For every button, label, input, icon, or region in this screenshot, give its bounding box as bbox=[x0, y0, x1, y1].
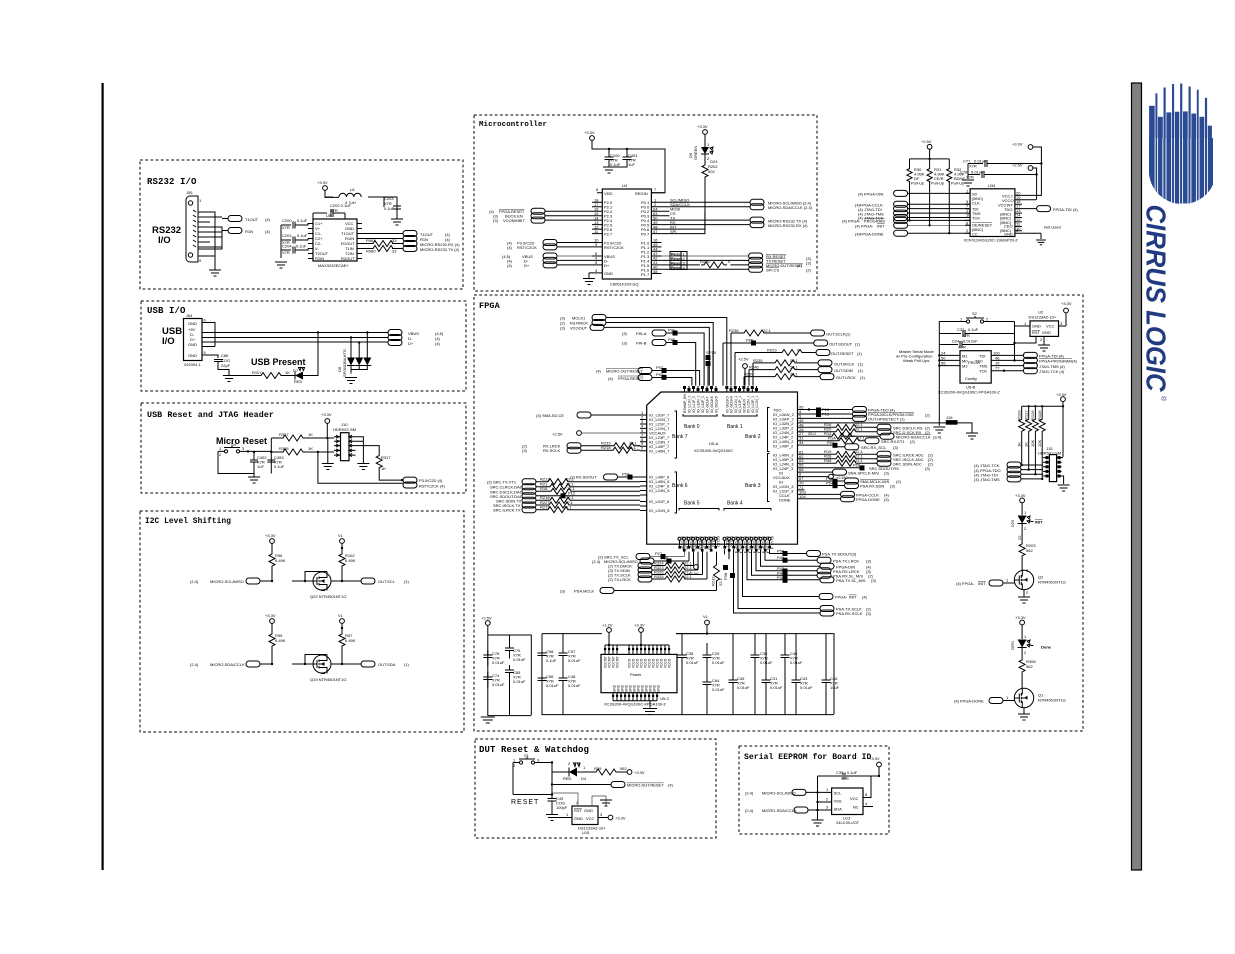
svg-text:FPGA: FPGA bbox=[479, 301, 501, 311]
stadium OUT.SDA bbox=[361, 661, 375, 667]
svg-text:®: ® bbox=[1159, 396, 1167, 402]
row SMA.MCLK bbox=[805, 480, 833, 482]
svg-text:+3.3V: +3.3V bbox=[634, 623, 645, 628]
ground prom caps bbox=[962, 180, 974, 186]
right stadiums reset bbox=[749, 253, 763, 259]
svg-text:VL: VL bbox=[338, 613, 344, 618]
svg-text:VCCO: VCCO bbox=[668, 658, 672, 668]
svg-text:IO_GCLK7: IO_GCLK7 bbox=[706, 396, 710, 413]
svg-text:I/O: I/O bbox=[158, 235, 171, 246]
svg-text:X7R: X7R bbox=[966, 175, 974, 180]
svg-text:(2,4): (2,4) bbox=[190, 662, 199, 667]
row PSA.TX.SDOUT bbox=[770, 549, 807, 553]
stadium OUT.SCL bbox=[361, 578, 375, 584]
svg-text:OUT.SDOUT: OUT.SDOUT bbox=[829, 342, 853, 347]
svg-text:(3): (3) bbox=[622, 341, 628, 346]
svg-text:Q22 NTR4501NT1G: Q22 NTR4501NT1G bbox=[310, 594, 346, 599]
svg-text:OUT.SCLK(1): OUT.SCLK(1) bbox=[826, 332, 851, 337]
svg-text:GND: GND bbox=[657, 684, 661, 692]
USB I/O block box bbox=[141, 301, 466, 391]
svg-text:+2.5V: +2.5V bbox=[481, 616, 492, 621]
svg-text:(3): (3) bbox=[522, 448, 528, 453]
svg-text:0.01uF: 0.01uF bbox=[686, 660, 699, 665]
svg-text:SRC.RX.ET1: SRC.RX.ET1 bbox=[881, 439, 905, 444]
USB bus wires bbox=[207, 333, 388, 343]
svg-text:22.1: 22.1 bbox=[857, 436, 866, 441]
svg-text:(3): (3) bbox=[884, 470, 890, 475]
net labels right of chip bbox=[670, 198, 690, 235]
svg-text:Q19 NTR4501NT1G: Q19 NTR4501NT1G bbox=[310, 677, 346, 682]
svg-text:(4) FPGA-: (4) FPGA- bbox=[956, 581, 975, 586]
svg-text:SCL: SCL bbox=[834, 791, 843, 796]
svg-text:(4): (4) bbox=[265, 229, 271, 234]
bottom pin circles bank5 bbox=[678, 537, 717, 544]
svg-text:1K: 1K bbox=[308, 446, 313, 451]
chip GND to ground bbox=[588, 273, 590, 278]
resistor R981 bbox=[370, 241, 396, 247]
ground caps bbox=[603, 167, 615, 173]
svg-text:(3): (3) bbox=[622, 331, 628, 336]
svg-text:0.01uF: 0.01uF bbox=[737, 685, 750, 690]
ferrite J16 bbox=[805, 422, 946, 424]
svg-text:6.49K: 6.49K bbox=[345, 638, 356, 643]
P31 P32 squares bbox=[706, 355, 711, 360]
svg-text:+3.3V: +3.3V bbox=[265, 613, 276, 618]
svg-text:GND: GND bbox=[1004, 231, 1013, 236]
svg-text:(1): (1) bbox=[858, 368, 864, 373]
svg-text:VCC: VCC bbox=[850, 796, 859, 801]
svg-text:U4: U4 bbox=[622, 183, 628, 188]
svg-text:+3.3V: +3.3V bbox=[1015, 493, 1026, 498]
svg-text:MICRO-SCL/MISO: MICRO-SCL/MISO bbox=[762, 791, 796, 796]
ground Q2 bbox=[1018, 597, 1030, 603]
stadium OUT.SCLK bbox=[811, 330, 825, 336]
svg-text:RED: RED bbox=[294, 379, 303, 384]
svg-text:J55: J55 bbox=[186, 190, 193, 195]
svg-text:RST: RST bbox=[574, 808, 583, 813]
svg-text:(4): (4) bbox=[435, 341, 441, 346]
svg-text:6.49K: 6.49K bbox=[275, 638, 286, 643]
svg-text:(4): (4) bbox=[265, 217, 271, 222]
svg-text:SDA: SDA bbox=[834, 807, 843, 812]
svg-text:+3.3V: +3.3V bbox=[317, 180, 328, 185]
P15 P16 squares bbox=[816, 408, 821, 413]
svg-text:22.1: 22.1 bbox=[790, 358, 799, 363]
svg-text:R1N: R1N bbox=[245, 229, 253, 234]
svg-text:GND: GND bbox=[188, 321, 197, 326]
row FPGA-DONE bbox=[805, 498, 841, 500]
svg-text:(1): (1) bbox=[404, 662, 410, 667]
svg-text:33: 33 bbox=[392, 249, 397, 254]
svg-text:Bank 2: Bank 2 bbox=[745, 434, 761, 440]
svg-text:0.1uF: 0.1uF bbox=[546, 658, 557, 663]
header left ground bbox=[322, 464, 334, 470]
svg-text:+3.3V: +3.3V bbox=[697, 124, 708, 129]
right pin labels P0 P1 bbox=[641, 200, 650, 277]
svg-text:GND: GND bbox=[1032, 324, 1041, 329]
stadium RIN bbox=[228, 228, 242, 234]
bank 2 bracket bbox=[768, 408, 770, 452]
svg-text:IO_L40N_7: IO_L40N_7 bbox=[649, 449, 670, 454]
row PSA.RX.SDIN bbox=[805, 485, 833, 487]
svg-text:(4) JTAG-TMS: (4) JTAG-TMS bbox=[974, 477, 1000, 482]
svg-text:MICRO-SDA/CCLK (2,4): MICRO-SDA/CCLK (2,4) bbox=[768, 205, 813, 210]
svg-text:33: 33 bbox=[392, 238, 397, 243]
svg-text:+3.3V: +3.3V bbox=[1015, 615, 1026, 620]
svg-text:1K: 1K bbox=[308, 432, 313, 437]
svg-text:47: 47 bbox=[653, 229, 658, 234]
svg-text:562: 562 bbox=[620, 766, 627, 771]
svg-text:C8051F320-GQ: C8051F320-GQ bbox=[610, 282, 638, 287]
row SNA.SPCLK bbox=[805, 471, 833, 473]
svg-text:IO_L24N_6: IO_L24N_6 bbox=[649, 488, 670, 493]
top pin squares and stubs bank0 bbox=[683, 386, 718, 392]
svg-text:R38: R38 bbox=[824, 458, 832, 463]
svg-text:(3): (3) bbox=[925, 466, 931, 471]
svg-text:(3): (3) bbox=[890, 484, 896, 489]
svg-text:Weak Pull-Ups: Weak Pull-Ups bbox=[903, 358, 929, 363]
svg-text:P54: P54 bbox=[826, 481, 834, 486]
svg-text:P1.7: P1.7 bbox=[641, 272, 650, 277]
svg-text:(1): (1) bbox=[857, 351, 863, 356]
svg-text:IO_L01N_6: IO_L01N_6 bbox=[649, 508, 670, 513]
svg-text:MICRO-SDA/CCLK: MICRO-SDA/CCLK bbox=[210, 662, 245, 667]
left pin stubs bbox=[589, 193, 602, 273]
output stadiums USB bbox=[388, 330, 402, 336]
svg-text:IO_L40P_2: IO_L40P_2 bbox=[773, 444, 794, 449]
ground power chip bbox=[643, 709, 657, 715]
svg-text:(2,4): (2,4) bbox=[592, 559, 601, 564]
svg-text:T1OUT: T1OUT bbox=[245, 217, 259, 222]
svg-text:OUT.SDIN: OUT.SDIN bbox=[834, 368, 853, 373]
svg-text:+3.3V: +3.3V bbox=[1061, 301, 1072, 306]
svg-text:0.1uF: 0.1uF bbox=[297, 218, 308, 223]
svg-text:562: 562 bbox=[1026, 664, 1033, 669]
svg-text:34: 34 bbox=[799, 440, 804, 445]
rotated top pin names bank0 bbox=[683, 394, 719, 413]
wires P0 to stadiums bbox=[661, 202, 750, 233]
svg-text:CIRRUS LOGIC: CIRRUS LOGIC bbox=[1141, 205, 1172, 393]
svg-text:X7R: X7R bbox=[282, 250, 290, 255]
svg-text:R236: R236 bbox=[729, 328, 739, 333]
svg-text:SP38: SP38 bbox=[706, 350, 717, 355]
+2.5V bottom terminal bbox=[694, 565, 699, 570]
svg-text:D+: D+ bbox=[408, 341, 414, 346]
svg-text:INIT: INIT bbox=[849, 595, 857, 600]
svg-text:(1): (1) bbox=[404, 579, 410, 584]
svg-text:(4) FPGA-DONE: (4) FPGA-DONE bbox=[954, 699, 984, 704]
svg-text:OUT.LRCK: OUT.LRCK bbox=[836, 375, 856, 380]
chip U13 24LC00 bbox=[832, 788, 863, 815]
config chip U5-B bbox=[960, 351, 991, 383]
svg-text:Bank 6: Bank 6 bbox=[672, 483, 688, 489]
config chip right stubs to stadiums bbox=[991, 355, 1023, 370]
resistor R317 bbox=[356, 446, 380, 454]
svg-text:U5-A: U5-A bbox=[709, 441, 718, 446]
chip U15 DS1233 bbox=[572, 806, 598, 825]
svg-text:(4)FPGA-DONE: (4)FPGA-DONE bbox=[855, 231, 884, 236]
svg-text:0.01uF: 0.01uF bbox=[712, 687, 725, 692]
svg-text:Micro Reset: Micro Reset bbox=[216, 436, 267, 446]
ground left caps bbox=[275, 262, 287, 268]
svg-text:FPGA-: FPGA- bbox=[835, 595, 848, 600]
svg-text:MICRO-SDA/CCLK: MICRO-SDA/CCLK bbox=[762, 808, 797, 813]
mosfet Q19 bbox=[313, 655, 331, 674]
svg-text:Bank 7: Bank 7 bbox=[672, 434, 688, 440]
svg-text:D+: D+ bbox=[604, 263, 610, 268]
ground Q1 bbox=[1018, 714, 1030, 720]
svg-text:FPGA-TDI (4): FPGA-TDI (4) bbox=[1053, 207, 1078, 212]
mosfet Q2 bbox=[1014, 570, 1033, 590]
svg-text:SPI.CS: SPI.CS bbox=[766, 268, 779, 273]
svg-text:(2) TX.LRCK: (2) TX.LRCK bbox=[608, 577, 631, 582]
svg-text:+2.5V: +2.5V bbox=[688, 571, 699, 576]
svg-text:0.01uF: 0.01uF bbox=[513, 657, 526, 662]
svg-text:(1): (1) bbox=[855, 342, 861, 347]
power chip top pin wires bbox=[605, 648, 669, 654]
left pin rows bank6 bbox=[649, 475, 670, 514]
svg-text:NTR4501NT1G: NTR4501NT1G bbox=[1038, 698, 1066, 703]
svg-text:R980: R980 bbox=[366, 249, 376, 254]
svg-text:0.1uF: 0.1uF bbox=[274, 464, 285, 469]
I2C Level Shifting block box bbox=[140, 511, 464, 732]
svg-text:CC: CC bbox=[972, 231, 978, 236]
FPGA U5-A outline bbox=[647, 392, 798, 544]
svg-text:(4) FPGA-: (4) FPGA- bbox=[855, 224, 874, 229]
svg-text:6.49K: 6.49K bbox=[275, 558, 286, 563]
svg-text:(1): (1) bbox=[858, 361, 864, 366]
svg-text:(3): (3) bbox=[560, 325, 566, 330]
svg-text:R325: R325 bbox=[654, 574, 664, 579]
svg-text:L6: L6 bbox=[350, 187, 355, 192]
svg-text:(3): (3) bbox=[866, 611, 872, 616]
OUT.HPDETECT stadium bbox=[805, 417, 853, 419]
ground S2 rail bbox=[933, 427, 945, 433]
svg-text:VCCINT: VCCINT bbox=[616, 656, 620, 668]
wire chip V+ rail bbox=[280, 225, 282, 258]
svg-text:XC3S200-4VQG100C: XC3S200-4VQG100C bbox=[694, 448, 733, 453]
svg-text:SNA.SPCLK-M/S: SNA.SPCLK-M/S bbox=[848, 470, 879, 475]
output stadiums JTAG bbox=[403, 477, 417, 483]
svg-text:PSA.RX.SDN: PSA.RX.SDN bbox=[860, 484, 884, 489]
FPGA-MCLK stadium bbox=[805, 413, 853, 415]
main power loop bbox=[542, 634, 834, 715]
svg-text:TCK: TCK bbox=[979, 369, 987, 374]
svg-text:+3.3V: +3.3V bbox=[321, 412, 332, 417]
ground J16 bbox=[966, 433, 978, 439]
svg-text:P56: P56 bbox=[853, 463, 861, 468]
svg-text:USB Reset and JTAG Header: USB Reset and JTAG Header bbox=[147, 410, 274, 420]
svg-text:22.1: 22.1 bbox=[855, 427, 864, 432]
svg-text:Power: Power bbox=[630, 672, 642, 677]
svg-text:22.1: 22.1 bbox=[564, 505, 573, 510]
svg-text:U34: U34 bbox=[988, 183, 996, 188]
svg-text:J16: J16 bbox=[946, 415, 953, 420]
svg-text:VSS: VSS bbox=[834, 799, 842, 804]
P38 squares bbox=[723, 565, 728, 570]
svg-text:VCC: VCC bbox=[1046, 324, 1055, 329]
stadium OUT.MCLK bbox=[818, 360, 832, 366]
svg-text:IO_L01P_6: IO_L01P_6 bbox=[649, 499, 670, 504]
ground left caps bbox=[481, 717, 495, 723]
svg-text:P0.7: P0.7 bbox=[641, 232, 650, 237]
svg-text:Not Used: Not Used bbox=[1044, 225, 1061, 230]
svg-text:292304-1: 292304-1 bbox=[184, 362, 202, 367]
svg-text:R2IN: R2IN bbox=[315, 256, 324, 261]
DUT Reset &amp; Watchdog block box bbox=[475, 739, 716, 838]
svg-text:IO_L32N_0: IO_L32N_0 bbox=[697, 396, 701, 413]
row SRC.SDOUT.RS bbox=[805, 467, 860, 469]
svg-text:TCK: TCK bbox=[972, 215, 980, 220]
svg-text:DUT Reset & Watchdog: DUT Reset & Watchdog bbox=[479, 745, 589, 755]
left page border line bbox=[102, 83, 104, 870]
svg-text:JTAG-TCK (4): JTAG-TCK (4) bbox=[1039, 369, 1065, 374]
svg-text:Bank 4: Bank 4 bbox=[727, 501, 743, 507]
svg-text:R126: R126 bbox=[1030, 410, 1035, 420]
rotated top pin names bank1 bbox=[726, 396, 760, 413]
U13 left wiring bbox=[806, 792, 832, 810]
svg-text:0.1uF: 0.1uF bbox=[297, 233, 308, 238]
svg-text:0.01uF: 0.01uF bbox=[770, 685, 783, 690]
TVS diode array D8 bbox=[351, 333, 367, 358]
wires P1 rows to stadiums bbox=[661, 255, 748, 257]
RS232 I/O block box bbox=[140, 160, 463, 289]
svg-text:P64: P64 bbox=[827, 440, 835, 445]
svg-text:10: 10 bbox=[966, 213, 971, 218]
svg-text:10uF: 10uF bbox=[830, 685, 840, 690]
svg-text:(1): (1) bbox=[860, 375, 866, 380]
svg-text:I/O: I/O bbox=[162, 336, 175, 347]
left pin labels P2 bbox=[604, 200, 624, 276]
svg-text:IO_GCLK5: IO_GCLK5 bbox=[715, 396, 719, 413]
+2.5V mid terminal bbox=[805, 476, 829, 478]
chip right pin stubs bbox=[357, 224, 362, 259]
power chip bottom pins GND bbox=[612, 695, 658, 697]
svg-text:1K: 1K bbox=[1024, 442, 1029, 447]
svg-text:IO_L24P_3: IO_L24P_3 bbox=[773, 466, 794, 471]
Q22 wires bbox=[292, 572, 361, 582]
svg-text:(3): (3) bbox=[866, 558, 872, 563]
ground J15 bbox=[1058, 485, 1070, 491]
svg-text:0.01uF: 0.01uF bbox=[712, 660, 725, 665]
svg-text:USB I/O: USB I/O bbox=[147, 306, 186, 316]
svg-text:0.01uF: 0.01uF bbox=[513, 679, 526, 684]
mosfet Q22 bbox=[313, 572, 331, 591]
resistor R30 bbox=[907, 168, 912, 183]
svg-text:(3): (3) bbox=[493, 218, 499, 223]
row FPGA-DIN bbox=[761, 549, 821, 566]
svg-text:(2,4): (2,4) bbox=[745, 808, 754, 813]
row SRC.RX_SCL bbox=[805, 444, 833, 446]
VL wire to loop bbox=[676, 633, 707, 635]
header right ground bbox=[357, 464, 369, 470]
resistor bottoms to JTAG rows bbox=[1022, 433, 1042, 479]
svg-text:+3.3V: +3.3V bbox=[634, 770, 645, 775]
svg-text:FPGA-DONE: FPGA-DONE bbox=[856, 497, 880, 502]
svg-text:R109: R109 bbox=[1037, 410, 1042, 420]
svg-text:OUT.HPDETECT (1): OUT.HPDETECT (1) bbox=[868, 417, 905, 422]
svg-text:C204: C204 bbox=[282, 244, 292, 249]
ground C203 bbox=[391, 219, 403, 225]
svg-text:22: 22 bbox=[1017, 535, 1022, 540]
FPGA block box bbox=[474, 295, 1083, 731]
resistor R980 bbox=[370, 246, 396, 252]
chip right stubs prom bbox=[1015, 195, 1041, 233]
svg-text:Bank 0: Bank 0 bbox=[684, 424, 700, 430]
bank 1 bracket bbox=[723, 414, 757, 416]
U15 wiring bbox=[552, 793, 606, 806]
resistor R32 bbox=[947, 168, 952, 183]
svg-text:(2): (2) bbox=[806, 268, 812, 273]
svg-text:+3.3V: +3.3V bbox=[615, 816, 626, 821]
svg-text:22.1: 22.1 bbox=[790, 364, 799, 369]
svg-text:FIN-A: FIN-A bbox=[636, 331, 647, 336]
svg-text:RST: RST bbox=[1032, 330, 1041, 335]
bank 6 bracket bbox=[675, 472, 677, 513]
left pin rows bank7 bbox=[649, 413, 670, 454]
svg-text:(4): (4) bbox=[608, 376, 614, 381]
svg-text:0.01uF: 0.01uF bbox=[546, 683, 559, 688]
wires chip right to outputs bbox=[362, 234, 403, 249]
svg-text:25.0: 25.0 bbox=[808, 431, 817, 436]
ground USB bbox=[223, 376, 235, 382]
U13 right wiring bbox=[863, 776, 873, 807]
svg-text:0.01uF: 0.01uF bbox=[568, 683, 581, 688]
svg-text:0.01uF: 0.01uF bbox=[760, 660, 773, 665]
right pin rows bank3 bbox=[773, 453, 794, 503]
svg-text:R223: R223 bbox=[767, 347, 777, 352]
svg-text:(4): (4) bbox=[862, 595, 868, 600]
bottom pin squares under chip bbox=[678, 546, 771, 552]
svg-text:RST/C2CK (4): RST/C2CK (4) bbox=[419, 484, 445, 489]
chip left stubs prom bbox=[965, 193, 970, 233]
svg-text:MICRO-SCL/MISO: MICRO-SCL/MISO bbox=[210, 579, 244, 584]
svg-text:38: 38 bbox=[653, 269, 658, 274]
stadium OUT.LRCK bbox=[820, 374, 834, 380]
output stadiums bbox=[403, 231, 417, 237]
stadium OUT.SDOUT bbox=[814, 340, 828, 346]
svg-text:GND: GND bbox=[604, 271, 613, 276]
USB Reset and JTAG Header block box bbox=[141, 403, 466, 493]
svg-text:1uF: 1uF bbox=[628, 162, 635, 167]
svg-text:J64: J64 bbox=[186, 313, 193, 318]
svg-text:PSA.MCLK: PSA.MCLK bbox=[574, 589, 595, 594]
svg-text:GREEN: GREEN bbox=[693, 146, 698, 160]
svg-text:INIT: INIT bbox=[978, 581, 986, 586]
svg-text:VL: VL bbox=[338, 533, 344, 538]
svg-text:IO_L01N_0: IO_L01N_0 bbox=[688, 396, 692, 413]
resistor R31 bbox=[927, 168, 932, 183]
svg-text:R981: R981 bbox=[366, 238, 376, 243]
ground prom gnd pin bbox=[1040, 233, 1042, 239]
svg-text:R103: R103 bbox=[1017, 410, 1022, 420]
svg-text:XCF01SVOG20C-1SBGP20-Z: XCF01SVOG20C-1SBGP20-Z bbox=[964, 238, 1019, 243]
svg-text:0.1uF: 0.1uF bbox=[610, 162, 621, 167]
svg-text:D7: D7 bbox=[293, 368, 299, 373]
svg-text:U15: U15 bbox=[582, 830, 590, 835]
svg-text:XC3S200-4VQG100C-FPGA100-Z: XC3S200-4VQG100C-FPGA100-Z bbox=[938, 390, 1000, 395]
svg-text:1K: 1K bbox=[1017, 442, 1022, 447]
svg-text:R122: R122 bbox=[1024, 410, 1029, 420]
svg-text:D+: D+ bbox=[524, 263, 530, 268]
top pin squares and stubs bank1 bbox=[725, 386, 758, 392]
Microcontroller block box bbox=[474, 115, 817, 291]
svg-text:RST/C2CK: RST/C2CK bbox=[517, 245, 537, 250]
bank 5 bracket bbox=[679, 509, 719, 511]
ground D8 bbox=[345, 378, 357, 384]
svg-text:Bank 3: Bank 3 bbox=[745, 483, 761, 489]
svg-text:SRC.ILRCK.TX: SRC.ILRCK.TX bbox=[493, 508, 521, 513]
